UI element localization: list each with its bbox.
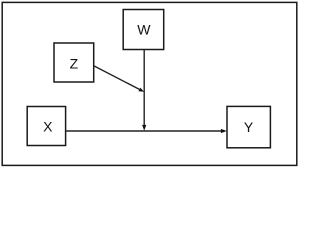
arrow X to Y [66,129,227,133]
box X [27,107,65,146]
svg-text:X: X [43,118,53,134]
box Y [227,106,270,147]
svg-text:W: W [137,22,151,38]
box W [123,10,164,50]
svg-text:Y: Y [244,119,254,135]
outer frame [2,2,297,165]
svg-text:Z: Z [70,56,79,72]
arrow Z to W line [94,66,144,92]
arrow W to X-Y line [142,50,146,131]
box Z [54,43,94,82]
